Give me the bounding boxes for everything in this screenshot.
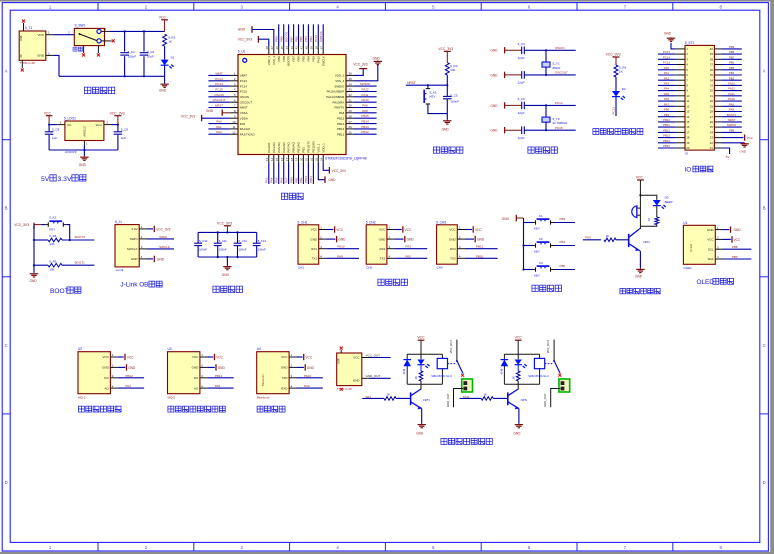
svg-text:VSS_1: VSS_1 bbox=[316, 143, 320, 152]
pin 3 of CH2 (RX2) bbox=[387, 248, 395, 250]
svg-text:12pF: 12pF bbox=[518, 136, 525, 140]
svg-text:SWCLK: SWCLK bbox=[321, 56, 325, 66]
svg-text:PA5: PA5 bbox=[585, 236, 591, 240]
svg-text:45: 45 bbox=[280, 46, 284, 50]
pin 4 of U3 (AO) bbox=[200, 387, 207, 389]
svg-text:GND: GND bbox=[30, 279, 38, 283]
wire and net label PA10 at CH1 pin 3 bbox=[326, 248, 359, 250]
svg-text:SRD-05VDC-SL-C: SRD-05VDC-SL-C bbox=[431, 375, 452, 378]
svg-text:TX3: TX3 bbox=[450, 257, 456, 261]
svg-text:GND: GND bbox=[192, 366, 200, 370]
svg-text:BOOT: BOOT bbox=[50, 288, 69, 295]
pin 24 of IO port ST1 (right) bbox=[714, 131, 721, 133]
pin 1 of IO port ST1 (left) bbox=[675, 48, 685, 50]
svg-text:13: 13 bbox=[265, 157, 269, 161]
svg-text:OLED: OLED bbox=[683, 266, 692, 270]
svg-text:PA4: PA4 bbox=[664, 87, 670, 91]
ground symbol of alarm circuit bbox=[639, 268, 641, 269]
svg-text:RX2: RX2 bbox=[379, 247, 385, 251]
wire VCC down to alarm branch node bbox=[639, 180, 641, 226]
pin 46 of U1 (PB9) top side bbox=[278, 46, 280, 55]
svg-text:9_C1: 9_C1 bbox=[128, 50, 136, 54]
pin 37 of IO port ST1 (right) bbox=[714, 64, 721, 66]
svg-text:PB14: PB14 bbox=[337, 122, 344, 126]
svg-text:K2: K2 bbox=[539, 237, 543, 241]
svg-text:PA0: PA0 bbox=[240, 122, 246, 126]
svg-text:S_SW1: S_SW1 bbox=[75, 24, 86, 28]
svg-text:1K: 1K bbox=[619, 70, 623, 74]
pin 24 of U1 (VDD_1) bottom side bbox=[322, 155, 324, 164]
svg-text:GND: GND bbox=[310, 237, 318, 241]
pin 2 of J1 (SWIO) bbox=[139, 238, 147, 240]
svg-text:36: 36 bbox=[710, 68, 714, 72]
key switch K2 (BOOT0 button) bbox=[45, 224, 48, 226]
no-ERC marker above T1 bbox=[22, 20, 25, 23]
wire and net label PC13 at ST1 pin 2 bbox=[658, 53, 675, 55]
svg-text:GND: GND bbox=[635, 275, 643, 279]
svg-text:100nF: 100nF bbox=[239, 247, 247, 251]
pin 38 of IO port ST1 (right) bbox=[714, 58, 721, 60]
wire and net label PB12 at U1 right pin 25 bbox=[354, 133, 377, 135]
capacitor C9 1uF at LDO output bbox=[117, 125, 119, 132]
pin 2 of U4 (GND) bbox=[289, 366, 296, 368]
svg-text:100nF: 100nF bbox=[219, 247, 227, 251]
pin 9 of IO port ST1 (left) bbox=[675, 90, 685, 92]
svg-text:PA15: PA15 bbox=[314, 35, 318, 42]
ground symbol of reset circuit bbox=[446, 120, 448, 121]
pin 26 of U1 (PB13) right side bbox=[346, 128, 354, 130]
wire and net label PA5 at U1 bottom pin bbox=[278, 163, 280, 184]
svg-text:PA15: PA15 bbox=[316, 56, 320, 63]
svg-text:31: 31 bbox=[349, 98, 353, 102]
buzzer LS1 bbox=[632, 206, 637, 218]
pin 11 of U1 (PA1/AO) left side bbox=[230, 128, 238, 130]
svg-text:K3: K3 bbox=[539, 261, 543, 265]
svg-text:GND: GND bbox=[128, 366, 136, 370]
svg-text:PB11: PB11 bbox=[309, 176, 313, 183]
wire and net label PB4 at key K2 bbox=[554, 245, 576, 247]
circuit title: smoke detection module bbox=[78, 406, 84, 412]
svg-text:PB6: PB6 bbox=[294, 36, 298, 42]
pin 13 of U1 (PA3/RX) bottom side bbox=[268, 155, 270, 164]
pin 4 of CH3 (TX3) bbox=[457, 257, 465, 259]
pin 35 of IO port ST1 (right) bbox=[714, 74, 721, 76]
wire ground rail of LDO circuit bbox=[49, 149, 118, 151]
pin 7 of U1 (NRST) left side bbox=[230, 107, 238, 109]
svg-text:VCC: VCC bbox=[192, 355, 199, 359]
svg-text:GND_OUT: GND_OUT bbox=[543, 393, 547, 407]
circuit title: key circuit bbox=[532, 285, 538, 291]
wire and net label PA12 at U1 right pin 33 bbox=[354, 91, 377, 93]
svg-text:VCC_OUT: VCC_OUT bbox=[546, 340, 550, 354]
svg-text:AO: AO bbox=[194, 386, 199, 390]
svg-text:U1: U1 bbox=[683, 221, 687, 225]
wire and net label PB5 at U1 top pin bbox=[302, 24, 304, 46]
svg-text:33: 33 bbox=[349, 88, 353, 92]
wire and net label PA11 at ST1 pin 31 bbox=[722, 95, 742, 97]
svg-text:PB3: PB3 bbox=[560, 217, 566, 221]
circuit title: bluetooth module bbox=[257, 406, 263, 412]
svg-text:VCC: VCC bbox=[449, 228, 456, 232]
svg-text:PC13: PC13 bbox=[240, 79, 248, 83]
svg-text:VCC: VCC bbox=[734, 238, 741, 242]
svg-text:20: 20 bbox=[300, 157, 304, 161]
wire and net label PB2 at U1 bottom pin bbox=[302, 163, 304, 184]
pin 11 of IO port ST1 (left) bbox=[675, 100, 685, 102]
svg-text:47: 47 bbox=[270, 46, 274, 50]
wire and net label PC14 at U1 left pin 3 bbox=[208, 85, 230, 87]
wire GND to capacitor 5_C7 bbox=[505, 129, 522, 131]
svg-text:PA3: PA3 bbox=[664, 82, 670, 86]
wire K1 to ground rail of reset circuit bbox=[428, 104, 447, 114]
svg-text:PA11: PA11 bbox=[728, 92, 735, 96]
svg-text:OSCOUT: OSCOUT bbox=[240, 100, 253, 104]
svg-text:TX1: TX1 bbox=[312, 257, 318, 261]
svg-text:GND: GND bbox=[102, 366, 110, 370]
svg-text:PA10: PA10 bbox=[728, 97, 735, 101]
pin 4 of J1 (GND) bbox=[139, 258, 147, 260]
wire and net label PB6 at U1 top pin bbox=[298, 24, 300, 46]
svg-text:PA15: PA15 bbox=[728, 82, 735, 86]
ground symbol of LDO circuit bbox=[83, 156, 85, 157]
wire and net label PB5 at ST1 pin 36 bbox=[722, 69, 742, 71]
svg-text:TXD: TXD bbox=[282, 376, 289, 380]
svg-text:BOOT0: BOOT0 bbox=[284, 31, 288, 42]
key switch K1 (reset button) bbox=[427, 85, 429, 88]
no-ERC cross at relay contact bbox=[558, 374, 561, 377]
svg-text:PB8: PB8 bbox=[729, 50, 735, 54]
svg-text:NRST: NRST bbox=[240, 106, 248, 110]
wire VCC to relay rail bbox=[420, 340, 422, 354]
svg-text:GND: GND bbox=[131, 257, 139, 261]
svg-text:28: 28 bbox=[349, 114, 353, 118]
wire and net label PB13 at U1 right pin 26 bbox=[354, 128, 377, 130]
svg-text:41: 41 bbox=[300, 46, 304, 50]
svg-text:24: 24 bbox=[319, 157, 323, 161]
wire emitter of Q1 to ground bbox=[639, 249, 640, 252]
wire and net label PA10 at U4 pin 3 bbox=[297, 377, 323, 379]
svg-text:VCC: VCC bbox=[281, 355, 288, 359]
wire R2 to NRST node bbox=[446, 75, 448, 96]
pin 2 of T2 GND_OUT bbox=[362, 377, 369, 379]
svg-text:PA7: PA7 bbox=[664, 102, 670, 106]
svg-text:SWCLK: SWCLK bbox=[127, 247, 138, 251]
pin 22 of U1 (PB11/RX) bottom side bbox=[312, 155, 314, 164]
wire and net label PB14 at U1 right pin 27 bbox=[354, 123, 377, 125]
svg-text:PB7: PB7 bbox=[289, 36, 293, 42]
pin 3 of LDO1 bbox=[57, 124, 65, 126]
svg-text:NRST: NRST bbox=[215, 104, 223, 108]
capacitor 5_C10 100nF bbox=[197, 232, 199, 243]
svg-text:PA3: PA3 bbox=[265, 177, 269, 183]
svg-text:1K: 1K bbox=[386, 392, 390, 396]
svg-text:VSS_2: VSS_2 bbox=[335, 79, 344, 83]
wire and net label PB14 at ST1 pin 19 bbox=[658, 142, 675, 144]
svg-text:26: 26 bbox=[710, 120, 714, 124]
wire 5_C3 to crystal node and net label OSCIN bbox=[524, 49, 575, 51]
svg-text:1uF: 1uF bbox=[52, 136, 57, 140]
svg-text:PB9: PB9 bbox=[732, 255, 738, 259]
transistor Q NPN relay driver bbox=[507, 392, 509, 405]
svg-text:GND: GND bbox=[734, 228, 742, 232]
pin 28 of U1 (PB15) right side bbox=[346, 117, 354, 119]
wire and net label PB6 at ST1 pin 37 bbox=[722, 64, 742, 66]
no-ERC marker below T1 bbox=[21, 69, 24, 72]
power port VCC at U4 pin 1 bbox=[297, 356, 303, 358]
power port GND at U1 VSS_1 bottom bbox=[318, 163, 325, 180]
svg-text:PB5: PB5 bbox=[729, 66, 735, 70]
wire GND to capacitor 5_C3 bbox=[505, 49, 522, 51]
svg-text:5V: 5V bbox=[726, 155, 730, 159]
capacitor 5_C4 12pF bbox=[521, 71, 523, 79]
pin 40 of U1 (PB4) top side bbox=[307, 46, 309, 55]
svg-text:5_LDO1: 5_LDO1 bbox=[64, 117, 76, 121]
svg-text:10K: 10K bbox=[49, 267, 54, 271]
svg-text:PB15: PB15 bbox=[361, 114, 369, 118]
power port GND at J1 pin 4 bbox=[147, 258, 153, 260]
wire relay bottom rail bbox=[407, 383, 442, 385]
wire and net label OSCOUT at U1 left pin 6 bbox=[208, 101, 230, 103]
svg-text:19: 19 bbox=[295, 157, 299, 161]
wire and net label PA3 at U1 bottom pin bbox=[268, 163, 270, 184]
wire and net label PB15 at U1 right pin 28 bbox=[354, 117, 377, 119]
svg-text:5_C5: 5_C5 bbox=[450, 93, 458, 97]
svg-text:NRST: NRST bbox=[728, 118, 736, 122]
svg-text:12pF: 12pF bbox=[518, 56, 525, 60]
capacitor C2 10uF bbox=[143, 31, 145, 51]
wire and net label PA4 at U1 bottom pin bbox=[273, 163, 275, 184]
pin 21 of U1 (PB10/TX) bottom side bbox=[307, 155, 309, 164]
power port VCC_3V3 at J1 pin 1 bbox=[147, 228, 153, 230]
wire and net label PB3 at U1 top pin bbox=[312, 24, 314, 46]
svg-text:PC13: PC13 bbox=[663, 50, 670, 54]
svg-text:PB11: PB11 bbox=[476, 245, 483, 249]
wire and net label NRST at U1 left pin 7 bbox=[208, 107, 230, 109]
svg-text:PA6: PA6 bbox=[215, 384, 221, 388]
wire R_base to transistor base bbox=[493, 397, 508, 399]
svg-text:12pF: 12pF bbox=[518, 81, 525, 85]
LED D1 bbox=[161, 60, 169, 66]
resistor R1 1K bbox=[163, 34, 167, 46]
wire GND to IO port pin 1 bbox=[671, 43, 675, 49]
pin 31 of IO port ST1 (right) bbox=[714, 95, 721, 97]
pin 1 of U2 (VCC) bbox=[110, 356, 117, 358]
wire rail to key K2 bbox=[524, 245, 533, 247]
wire R_base to transistor base bbox=[396, 397, 411, 399]
svg-text:PA5: PA5 bbox=[664, 92, 670, 96]
circuit title: crystal circuit bbox=[528, 147, 534, 153]
svg-text:VCC: VCC bbox=[216, 355, 223, 359]
wire and net label SWIO at J1 pin 2 bbox=[147, 238, 174, 240]
svg-text:PB0: PB0 bbox=[289, 177, 293, 183]
pin 4 of CH2 (TX2) bbox=[387, 257, 395, 259]
svg-text:GND_OUT: GND_OUT bbox=[446, 393, 450, 407]
connector T2 (TYPE-C-2P power output) bbox=[337, 353, 362, 386]
svg-text:34: 34 bbox=[349, 82, 353, 86]
svg-text:VCC_3V3: VCC_3V3 bbox=[606, 53, 621, 57]
pin 42 of U1 (PB6) top side bbox=[298, 46, 300, 55]
pin 47 of U1 (VSS_3) top side bbox=[273, 46, 275, 55]
svg-text:AMS1117: AMS1117 bbox=[83, 125, 87, 137]
svg-text:30: 30 bbox=[349, 104, 353, 108]
svg-text:39: 39 bbox=[310, 46, 314, 50]
wire LED D2 down with net label PC13 bbox=[615, 97, 617, 116]
svg-text:13: 13 bbox=[686, 110, 690, 114]
svg-text:PA6/AO: PA6/AO bbox=[282, 142, 286, 153]
svg-text:19: 19 bbox=[686, 141, 690, 145]
svg-text:PB5: PB5 bbox=[560, 264, 566, 268]
svg-text:RX1: RX1 bbox=[311, 247, 317, 251]
svg-text:NPN: NPN bbox=[643, 240, 649, 244]
svg-text:17: 17 bbox=[285, 157, 289, 161]
svg-text:PB12: PB12 bbox=[337, 132, 344, 136]
svg-text:PA12/USBDP: PA12/USBDP bbox=[327, 90, 345, 94]
wire 5V at ST1 pin 21 bbox=[722, 148, 730, 154]
ground symbol of filter circuit bbox=[226, 266, 228, 267]
wire 5_C7 to crystal node and net label PC15 bbox=[524, 129, 575, 131]
svg-text:SWDIO: SWDIO bbox=[360, 82, 371, 86]
wire and net label PA9 at ST1 pin 29 bbox=[722, 105, 742, 107]
pin 30 of U1 (PA9/TX) right side bbox=[346, 107, 354, 109]
svg-text:32: 32 bbox=[349, 93, 353, 97]
pin 25 of IO port ST1 (right) bbox=[714, 126, 721, 128]
svg-text:PB0/AO: PB0/AO bbox=[292, 141, 296, 152]
svg-text:PA12: PA12 bbox=[361, 88, 368, 92]
wire GND to capacitor 5_C6 bbox=[505, 104, 522, 106]
svg-text:VBAT: VBAT bbox=[215, 71, 223, 75]
svg-text:38: 38 bbox=[315, 46, 319, 50]
svg-text:5_CH1: 5_CH1 bbox=[298, 220, 308, 224]
pin 2 of IO port ST1 (left) bbox=[675, 53, 685, 55]
pin 5 of U1 (OSCIN) left side bbox=[230, 96, 238, 98]
svg-text:SCL: SCL bbox=[708, 247, 714, 251]
wire filter rail to ground bbox=[226, 257, 228, 266]
pin 2 of LDO1 bbox=[104, 124, 112, 126]
svg-text:GND: GND bbox=[328, 178, 336, 182]
svg-text:5_C3: 5_C3 bbox=[518, 42, 526, 46]
svg-text:PA3/RX: PA3/RX bbox=[267, 142, 271, 152]
pin 15 of IO port ST1 (left) bbox=[675, 121, 685, 123]
wire rail to key K3 bbox=[524, 269, 533, 271]
pin 27 of IO port ST1 (right) bbox=[714, 116, 721, 118]
svg-text:VCC_3V3: VCC_3V3 bbox=[332, 169, 346, 173]
svg-text:PB11/RX: PB11/RX bbox=[312, 141, 316, 153]
svg-text:PA5: PA5 bbox=[275, 177, 279, 183]
svg-text:27: 27 bbox=[710, 115, 714, 119]
pin 3 of U4 (TXD) bbox=[289, 377, 296, 379]
wire and net label PA10 at U1 right pin 31 bbox=[354, 101, 377, 103]
wire and net label PA3 at ST1 pin 8 bbox=[658, 84, 675, 86]
svg-text:37: 37 bbox=[319, 46, 323, 50]
wire GND to key rail bbox=[516, 217, 523, 219]
pin 1 of CH1 (VCC) bbox=[319, 229, 327, 231]
svg-text:4148: 4148 bbox=[499, 368, 503, 374]
power port GND at CH3 pin 2 bbox=[465, 238, 474, 240]
svg-text:14: 14 bbox=[686, 115, 690, 119]
svg-text:PC14: PC14 bbox=[555, 101, 563, 105]
ground symbol at U1 VSS_2 bbox=[354, 65, 378, 81]
wire and net label PB10 at ST1 pin 15 bbox=[658, 121, 675, 123]
svg-text:PC15: PC15 bbox=[215, 88, 223, 92]
pin 4 of IO port ST1 (left) bbox=[675, 64, 685, 66]
svg-text:PA4: PA4 bbox=[125, 384, 131, 388]
pin 41 of U1 (PB5) top side bbox=[302, 46, 304, 55]
svg-text:40: 40 bbox=[305, 46, 309, 50]
power port VCC at U2 pin 1 bbox=[118, 356, 124, 358]
svg-text:PA9: PA9 bbox=[337, 254, 343, 258]
svg-text:PB15: PB15 bbox=[663, 144, 670, 148]
svg-text:38: 38 bbox=[710, 57, 714, 61]
svg-text:KEY: KEY bbox=[534, 250, 540, 254]
power port VCC_3V3 at U1 VDD_2 bbox=[354, 69, 363, 75]
power port GND at U4 pin 2 bbox=[297, 366, 305, 368]
svg-text:GND: GND bbox=[664, 32, 672, 36]
svg-text:B: B bbox=[5, 206, 8, 211]
svg-text:100uF: 100uF bbox=[128, 55, 137, 59]
wire and net label PB3 at key K1 bbox=[554, 222, 576, 224]
svg-text:PC13: PC13 bbox=[612, 107, 616, 115]
wire GND port to U1 VSS_3 top pin bbox=[252, 30, 274, 47]
svg-text:SWDIO: SWDIO bbox=[727, 123, 737, 127]
svg-text:GND: GND bbox=[281, 366, 289, 370]
wire T1 VCC to switch SW1 bbox=[54, 34, 74, 36]
pin 39 of U1 (PB3) top side bbox=[312, 46, 314, 55]
wire and net label BOOT0 at U1 top pin bbox=[288, 24, 290, 46]
pin 2 of OLED (VCC) bbox=[715, 238, 722, 240]
svg-text:GND: GND bbox=[490, 129, 498, 133]
svg-text:PB8: PB8 bbox=[280, 36, 284, 42]
pin 2 of U1 (PC13) left side bbox=[230, 80, 238, 82]
pin 20 of IO port ST1 (left) bbox=[675, 147, 685, 149]
svg-text:12: 12 bbox=[232, 130, 236, 134]
svg-text:9_C2: 9_C2 bbox=[147, 50, 155, 54]
svg-text:KEY: KEY bbox=[534, 274, 540, 278]
LED D_relay indicator bbox=[517, 354, 519, 359]
wire and net label OSCIN at U1 left pin 5 bbox=[208, 96, 230, 98]
wire VCC_3V3 port to U1 VDD_3 top pin bbox=[258, 39, 268, 46]
wire and net label BOOT0 at ST1 pin 27 bbox=[722, 116, 742, 118]
svg-text:PB5: PB5 bbox=[299, 36, 303, 42]
wire and net label PA12 at ST1 pin 32 bbox=[722, 90, 742, 92]
wire 5_C6 to crystal node and net label PC14 bbox=[524, 104, 575, 106]
pin 4 of OLED (SDA) bbox=[715, 258, 722, 260]
svg-text:TX2: TX2 bbox=[380, 257, 386, 261]
wire and net label PB11 at CH3 pin 3 bbox=[465, 248, 498, 250]
pin 9 of U1 (VDDA) left side bbox=[230, 117, 238, 119]
svg-text:GND_OUT: GND_OUT bbox=[366, 374, 381, 378]
pin 48 of U1 (VDD_3) top side bbox=[268, 46, 270, 55]
svg-text:PA9: PA9 bbox=[362, 104, 368, 108]
svg-text:D2: D2 bbox=[622, 87, 626, 91]
svg-text:NPN: NPN bbox=[521, 398, 527, 402]
svg-text:K1: K1 bbox=[539, 214, 543, 218]
svg-text:42: 42 bbox=[295, 46, 299, 50]
svg-text:GND: GND bbox=[37, 54, 45, 58]
svg-text:PA10: PA10 bbox=[304, 374, 311, 378]
diode D_flyback 1N4148 bbox=[406, 354, 408, 384]
terminal block (green) KF301 bbox=[559, 379, 570, 392]
pin 2 of U2 (GND) bbox=[110, 366, 117, 368]
svg-text:100nF: 100nF bbox=[199, 247, 207, 251]
power port VCC at U3 pin 1 bbox=[207, 356, 213, 358]
pin 1 of CH2 (VCC) bbox=[387, 229, 395, 231]
capacitor 5_C11 100nF bbox=[217, 232, 219, 243]
svg-text:GND: GND bbox=[159, 89, 167, 93]
svg-text:PA2: PA2 bbox=[406, 254, 412, 258]
wire and net label VCC_OUT at T2 bbox=[369, 357, 391, 359]
wire and net label PA5 at ST1 pin 10 bbox=[658, 95, 675, 97]
wire and net label NRST at ST1 pin 26 bbox=[722, 121, 742, 123]
